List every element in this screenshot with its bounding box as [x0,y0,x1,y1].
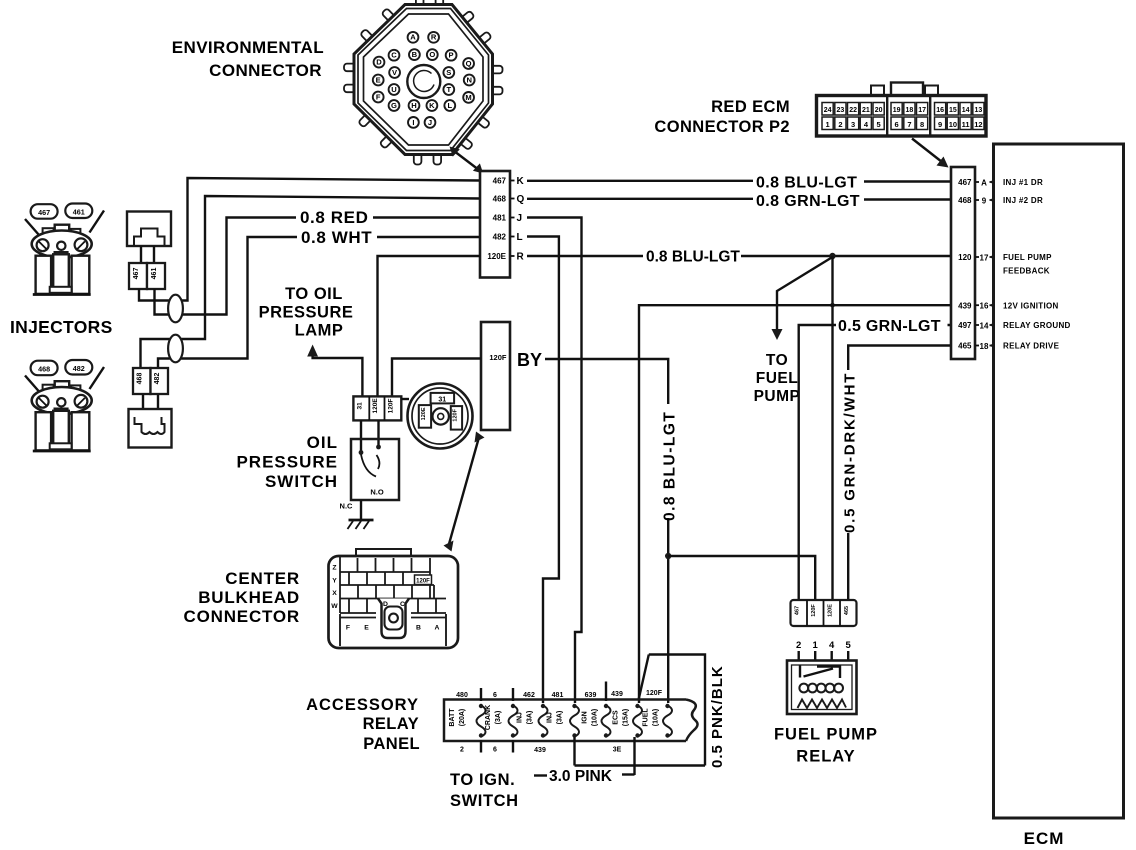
wire BY 0.8 BLU-LGT down [545,359,668,703]
accessory relay panel [444,682,698,755]
svg-text:2: 2 [838,120,842,129]
svg-text:Q: Q [466,59,472,68]
svg-text:7: 7 [907,120,911,129]
svg-text:481: 481 [552,692,564,699]
terminal boxes 468 482 [133,368,168,394]
injector 1 harness connector [127,212,171,247]
svg-text:467: 467 [958,178,972,187]
svg-text:ENVIRONMENTAL: ENVIRONMENTAL [172,38,324,57]
svg-text:481: 481 [493,214,507,223]
svg-text:467: 467 [133,268,140,280]
wire R 0.8 BLU-LGT to ECM 120 [527,255,951,257]
svg-text:17: 17 [980,253,989,262]
svg-text:120E: 120E [828,604,834,617]
svg-text:K: K [517,176,525,187]
svg-text:12: 12 [974,120,982,129]
svg-text:RELAY DRIVE: RELAY DRIVE [1003,342,1060,351]
svg-text:Y: Y [332,578,337,585]
svg-text:C: C [391,51,397,60]
svg-text:439: 439 [611,691,623,698]
svg-text:FUEL PUMP: FUEL PUMP [1003,253,1052,262]
svg-text:BULKHEAD: BULKHEAD [198,588,300,607]
ECM box [994,144,1124,818]
terminal strip 31 120E 120F [353,396,401,420]
svg-text:8: 8 [920,120,924,129]
svg-text:0.8 WHT: 0.8 WHT [301,228,372,247]
svg-text:FUEL PUMP: FUEL PUMP [774,726,878,744]
svg-text:120F: 120F [646,690,663,697]
svg-text:120F: 120F [416,579,430,585]
svg-text:INJ #1 DR: INJ #1 DR [1003,178,1043,187]
svg-text:(10A): (10A) [653,709,660,727]
red ECM connector P2 [817,83,987,137]
svg-text:R: R [431,33,437,42]
svg-text:9: 9 [982,196,987,205]
svg-text:120E: 120E [372,398,379,414]
svg-text:N.O: N.O [370,488,384,497]
wire stubs connector to 467/461 boxes [141,246,154,263]
svg-text:TO IGN.: TO IGN. [450,771,515,789]
svg-text:PRESSURE: PRESSURE [236,453,338,472]
svg-text:120E: 120E [487,252,506,261]
svg-text:(3A): (3A) [557,711,564,725]
wire J 481 down to panel [527,218,582,704]
svg-text:4: 4 [829,640,835,651]
svg-text:6: 6 [493,692,497,699]
svg-text:R: R [517,252,525,263]
svg-text:ACCESSORY: ACCESSORY [306,696,419,714]
svg-text:22: 22 [849,107,857,114]
svg-text:G: G [391,101,397,110]
svg-text:120F: 120F [388,398,395,413]
terminal boxes 467 461 [129,263,165,289]
svg-text:5: 5 [877,120,881,129]
svg-text:INJ: INJ [547,712,554,723]
svg-text:12V IGNITION: 12V IGNITION [1003,301,1059,310]
svg-text:RELAY GROUND: RELAY GROUND [1003,321,1071,330]
svg-text:X: X [332,590,337,597]
svg-text:RELAY: RELAY [796,748,855,766]
injector 2 harness connector [129,409,172,448]
grommet oval 2 [168,335,183,363]
svg-text:ECM: ECM [1024,829,1065,848]
oil pressure switch [351,420,399,500]
wire 461 to 0.8 RED [155,218,297,315]
svg-text:F: F [346,625,350,632]
svg-text:120F: 120F [811,604,817,617]
svg-text:480: 480 [456,692,468,699]
svg-text:467: 467 [38,208,50,217]
svg-text:0.8 GRN-LGT: 0.8 GRN-LGT [756,193,860,210]
svg-text:2: 2 [796,640,801,651]
svg-text:H: H [411,101,416,110]
svg-text:O: O [429,50,435,59]
svg-text:T: T [446,85,451,94]
svg-text:B: B [416,625,421,632]
svg-text:D: D [376,58,382,67]
ground [348,520,374,529]
svg-text:120E: 120E [421,407,427,420]
svg-text:465: 465 [958,342,972,351]
wire to fuel pump tap [777,257,833,330]
svg-text:639: 639 [585,692,597,699]
svg-text:RED ECM: RED ECM [711,98,790,116]
wire 482 to 0.8 WHT [158,237,297,368]
svg-text:439: 439 [958,301,972,310]
arrowhead to fuel pump [772,329,783,340]
svg-text:K: K [429,101,435,110]
ECM pin strip [951,167,1071,359]
wire to oil pressure lamp [313,354,363,396]
svg-text:462: 462 [523,692,535,699]
svg-text:N: N [466,75,471,84]
grommet oval 1 [168,295,183,323]
svg-text:J: J [517,213,523,224]
injector 2 [25,360,104,451]
svg-text:0.5 PNK/BLK: 0.5 PNK/BLK [709,665,726,768]
svg-text:BY: BY [517,350,542,370]
svg-text:468: 468 [137,373,144,385]
svg-text:FEEDBACK: FEEDBACK [1003,266,1050,275]
svg-text:23: 23 [837,107,845,114]
svg-text:16: 16 [936,107,944,114]
svg-text:U: U [391,85,397,94]
svg-text:OIL: OIL [307,433,338,452]
arrow env connector to strip A (double headed) [450,147,484,174]
svg-text:B: B [412,50,418,59]
svg-text:FUEL: FUEL [643,708,650,727]
svg-text:F: F [376,92,381,101]
svg-text:A: A [981,178,987,187]
wire switch to ground [360,500,362,520]
svg-text:5: 5 [846,640,852,651]
arrowhead to oil pressure lamp [307,345,318,357]
diagonal wire to fuse 439 terminal [639,655,649,701]
svg-text:0.5 GRN-DRK/WHT: 0.5 GRN-DRK/WHT [842,372,859,533]
svg-text:CONNECTOR: CONNECTOR [184,607,300,626]
svg-text:INJ: INJ [517,712,524,723]
svg-text:CONNECTOR: CONNECTOR [209,61,322,80]
svg-text:L: L [447,101,452,110]
svg-text:INJ #2 DR: INJ #2 DR [1003,196,1043,205]
svg-text:467: 467 [795,606,801,615]
svg-text:Q: Q [517,194,525,205]
injector 1 [25,204,104,295]
svg-text:A: A [435,625,440,632]
label 3.0 PINK [534,768,635,785]
svg-text:24: 24 [824,107,832,114]
svg-text:14: 14 [980,321,989,330]
svg-text:CONNECTOR P2: CONNECTOR P2 [654,118,790,136]
svg-text:31: 31 [357,402,364,410]
svg-text:14: 14 [962,107,970,114]
svg-text:482: 482 [73,364,85,373]
svg-text:468: 468 [958,196,972,205]
svg-text:CENTER: CENTER [225,569,300,588]
wire L 482 down to panel [527,237,559,704]
fuel pump relay [787,600,857,714]
svg-text:6: 6 [493,747,497,754]
svg-text:(15A): (15A) [623,709,630,727]
svg-text:465: 465 [844,606,850,615]
svg-text:16: 16 [980,302,989,311]
svg-text:468: 468 [493,195,507,204]
svg-text:(10A): (10A) [592,709,599,727]
svg-text:M: M [465,93,471,102]
wire junction to relay 120F [668,556,815,600]
svg-text:TO OIL: TO OIL [285,285,343,303]
svg-text:RELAY: RELAY [363,715,419,733]
svg-text:E: E [376,75,381,84]
svg-text:461: 461 [151,268,158,280]
svg-text:482: 482 [154,373,161,385]
wire 3.0 pink bus under panel [575,737,706,775]
svg-text:120: 120 [958,253,972,262]
svg-text:15: 15 [949,107,957,114]
svg-text:18: 18 [906,107,914,114]
svg-text:21: 21 [862,107,870,114]
svg-text:468: 468 [38,365,50,374]
svg-text:SWITCH: SWITCH [265,472,338,491]
svg-text:P: P [449,51,454,60]
svg-text:FUEL: FUEL [756,370,798,387]
svg-text:2: 2 [460,747,464,754]
wire 439 12V ignition ECM to panel [639,305,951,703]
svg-text:TO: TO [766,352,788,369]
svg-text:461: 461 [73,208,85,217]
connector strip B (120F) [481,322,510,430]
svg-text:19: 19 [893,107,901,114]
svg-text:6: 6 [895,120,899,129]
svg-text:17: 17 [918,107,926,114]
svg-text:L: L [517,232,523,243]
svg-text:SWITCH: SWITCH [450,792,519,810]
wire branch at 654 to 0.5 PNK/BLK [649,655,705,766]
wire 468 to strip A pin Q [141,196,481,368]
svg-text:W: W [331,603,338,610]
svg-text:9: 9 [938,120,942,129]
svg-text:PUMP: PUMP [754,388,801,405]
arrow bulkhead to gauge (double headed) [444,432,485,552]
junction node BY wire [665,553,671,559]
svg-text:482: 482 [493,233,507,242]
wire K 0.8 BLU-LGT to ECM 467 [527,180,951,183]
wire stubs to injector 2 connector [143,395,158,410]
svg-text:3: 3 [851,120,855,129]
svg-text:3.0 PINK: 3.0 PINK [549,768,613,785]
svg-text:10: 10 [949,120,957,129]
svg-text:C: C [400,601,405,608]
svg-text:1: 1 [826,120,830,129]
svg-text:ECS: ECS [613,710,620,725]
junction node [829,253,835,259]
svg-text:0.5 GRN-LGT: 0.5 GRN-LGT [838,318,941,335]
svg-text:I: I [412,118,414,127]
center bulkhead connector [329,549,459,648]
svg-text:13: 13 [975,107,983,114]
svg-text:(3A): (3A) [527,711,534,725]
svg-text:S: S [446,68,451,77]
svg-text:D: D [383,601,388,608]
svg-text:497: 497 [958,321,972,330]
svg-text:N.C: N.C [340,502,354,511]
svg-text:E: E [364,625,369,632]
wire 497 0.5 GRN-LGT relay ground [799,325,951,600]
svg-text:(3A): (3A) [495,711,502,725]
svg-text:467: 467 [493,177,507,186]
svg-text:CRANK: CRANK [485,705,492,730]
svg-text:0.8 BLU-LGT: 0.8 BLU-LGT [662,411,679,521]
svg-text:BATT: BATT [449,708,456,727]
svg-text:A: A [410,33,416,42]
wire 120F box to strip B [392,359,481,397]
svg-text:31: 31 [438,396,446,403]
svg-text:(20A): (20A) [459,709,466,727]
oil pressure switch connector face (gauge) [401,384,472,449]
environmental connector [344,0,503,165]
svg-text:18: 18 [980,342,989,351]
svg-text:IGN: IGN [582,711,589,723]
svg-text:0.8 RED: 0.8 RED [300,208,368,227]
svg-text:Z: Z [332,565,336,572]
svg-text:120F: 120F [453,408,459,421]
wire 465 0.5 GRN-DRK/WHT relay drive [848,346,951,601]
svg-text:1: 1 [813,640,819,651]
svg-text:439: 439 [534,747,546,754]
svg-text:J: J [428,118,432,127]
svg-text:INJECTORS: INJECTORS [10,317,113,337]
svg-text:0.8 BLU-LGT: 0.8 BLU-LGT [646,249,740,266]
wire Q 0.8 GRN-LGT to ECM 468 [527,198,951,201]
svg-text:3E: 3E [613,747,622,754]
wire 120E down to fuel pump relay [831,256,833,600]
svg-text:11: 11 [962,120,970,129]
svg-text:20: 20 [875,107,883,114]
arrow P2 to ECM strip [912,139,949,168]
svg-text:PANEL: PANEL [363,735,420,753]
svg-text:PRESSURE: PRESSURE [259,304,354,322]
svg-text:0.8 BLU-LGT: 0.8 BLU-LGT [756,175,857,192]
connector strip A (467/468/481/482/120E) [480,171,525,278]
svg-text:120F: 120F [489,353,507,362]
wire 467 to strip A pin K [139,178,480,301]
svg-text:LAMP: LAMP [295,322,344,340]
wire R 120E left branch down to oil switch boxes [378,256,481,397]
